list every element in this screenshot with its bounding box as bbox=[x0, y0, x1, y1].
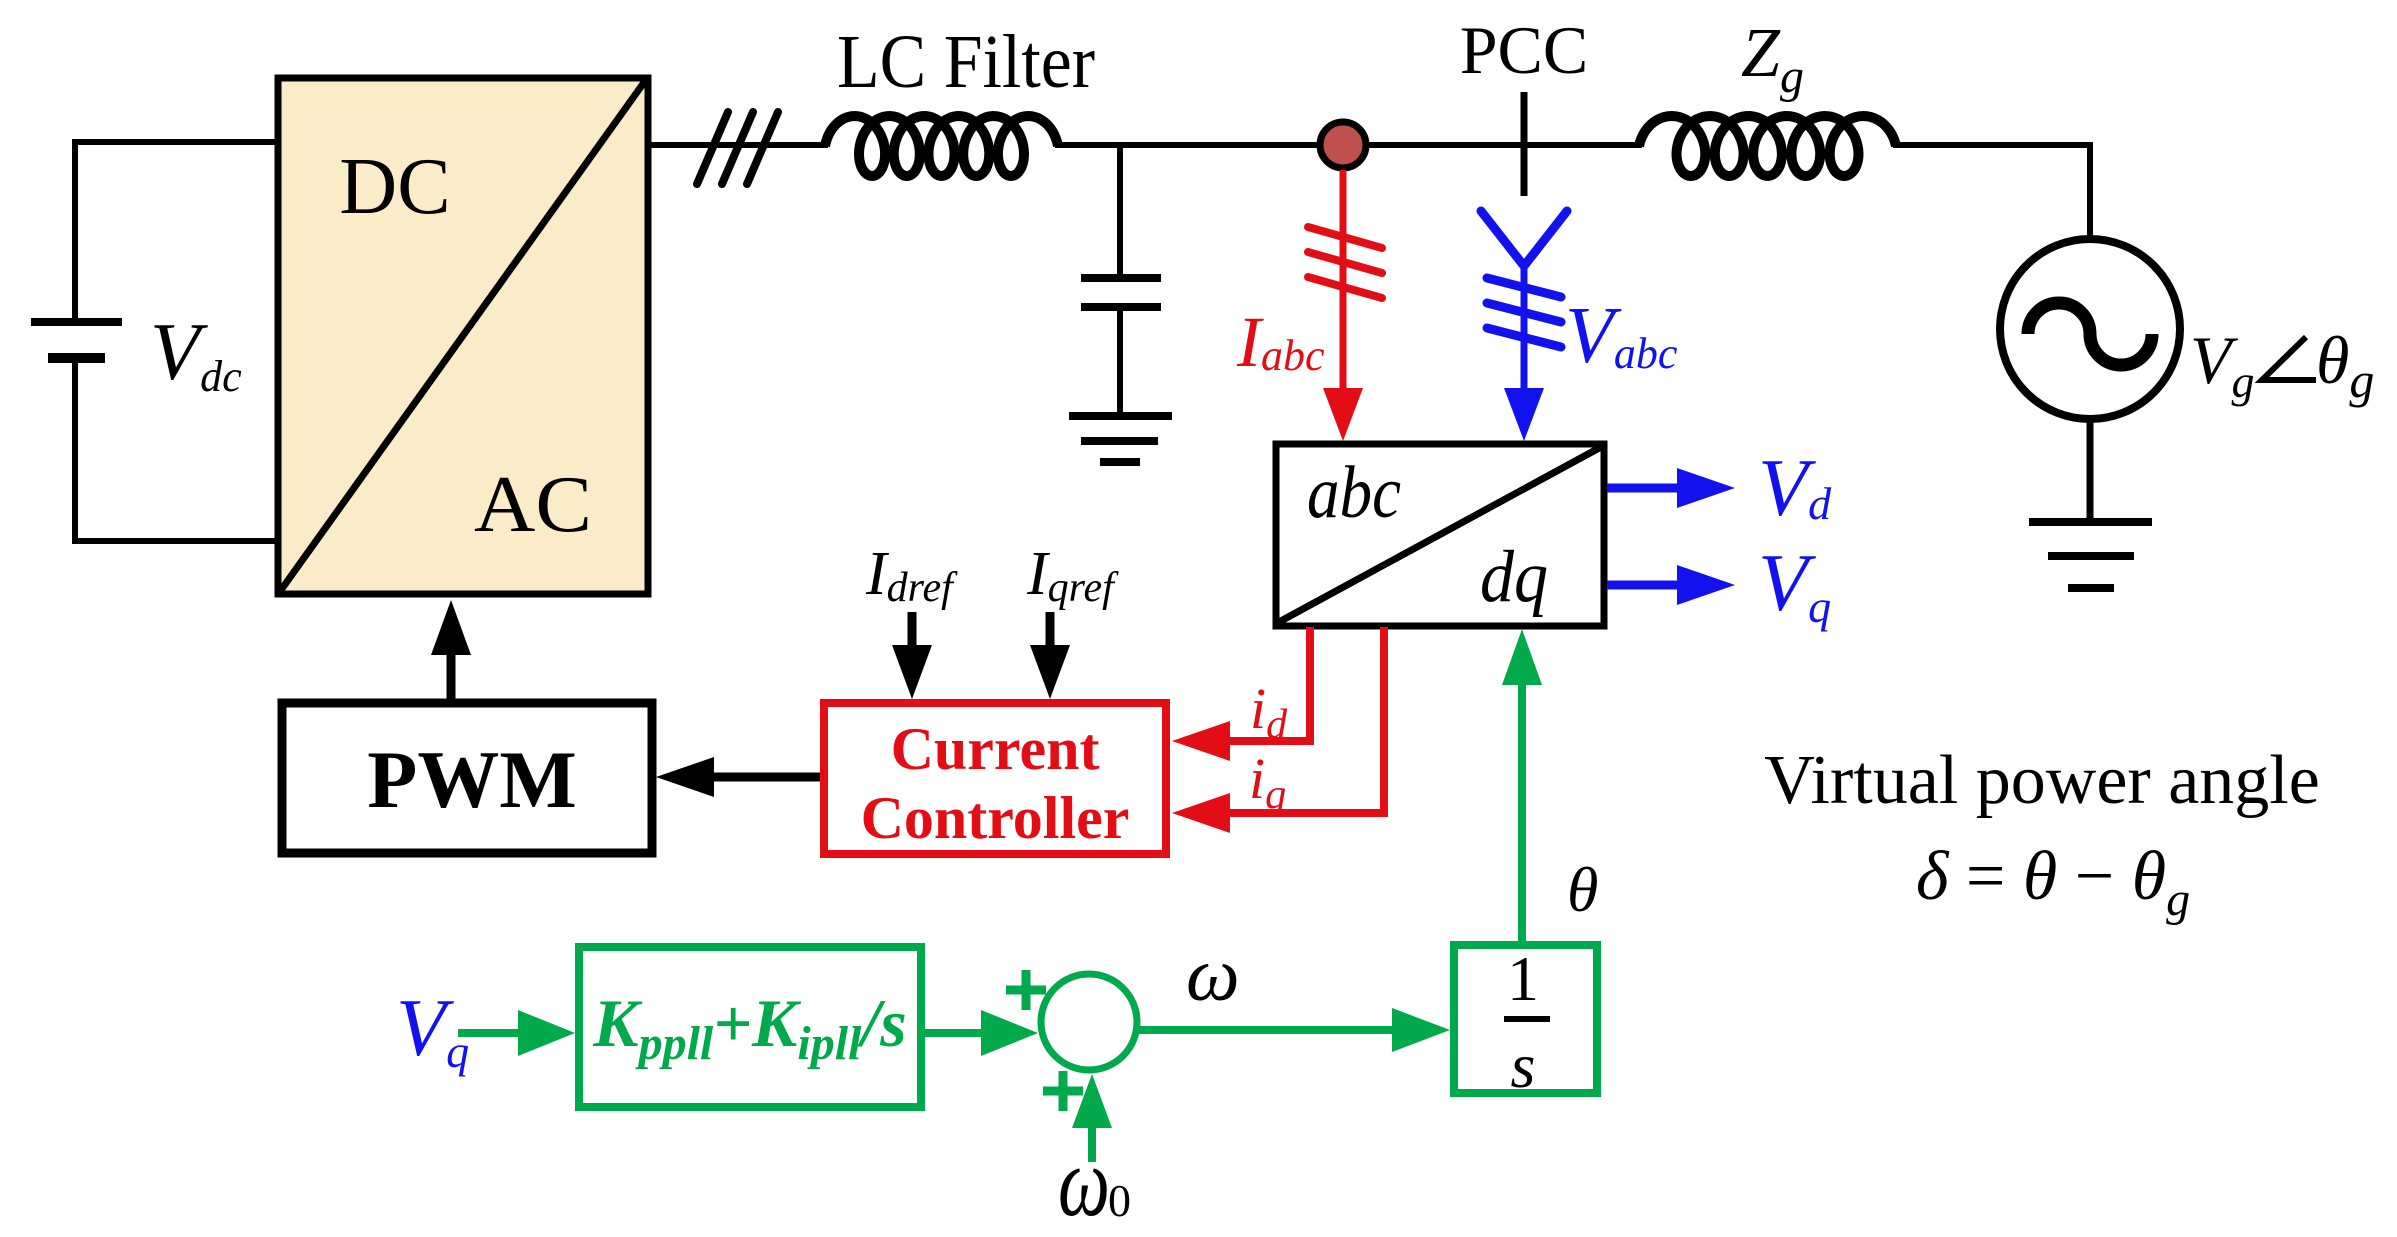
block K_ppll + K_ipll/s bbox=[579, 947, 921, 1107]
svg-text:1: 1 bbox=[1507, 943, 1539, 1014]
battery plate short bbox=[48, 353, 105, 363]
wire converter to LC filter bbox=[651, 142, 828, 148]
wire theta bbox=[1518, 683, 1526, 941]
plus bottom bbox=[1043, 1071, 1083, 1111]
arrow omega0 bbox=[1088, 1128, 1096, 1162]
wire bbox=[75, 358, 278, 541]
AC grid source bbox=[2000, 239, 2180, 419]
svg-text:ω: ω bbox=[1058, 1126, 1110, 1237]
arrow controller to PWM bbox=[713, 773, 820, 782]
wire Zg to grid source bbox=[1893, 145, 2090, 239]
output V_q bbox=[1607, 581, 1679, 590]
svg-text:δ = θ − θg: δ = θ − θg bbox=[1916, 838, 2190, 926]
voltage measurement V_abc bbox=[1481, 211, 1567, 266]
ground (grid) bbox=[2029, 522, 2152, 588]
battery V_dc bbox=[75, 142, 278, 541]
svg-text:PWM: PWM bbox=[367, 734, 576, 825]
svg-text:Virtual power angle: Virtual power angle bbox=[1764, 742, 2320, 819]
wire i_d bbox=[1228, 627, 1310, 741]
abc/dq transform block bbox=[1276, 444, 1604, 626]
arrow I_dref bbox=[908, 612, 917, 648]
capacitor branch wire bbox=[1117, 145, 1123, 278]
ground (capacitor) bbox=[1069, 416, 1172, 462]
inductor Zg bbox=[1639, 116, 1896, 176]
battery plate long bbox=[31, 318, 122, 326]
capacitor C bbox=[1081, 274, 1161, 282]
current measurement I_abc bbox=[1340, 170, 1347, 392]
plus top bbox=[1006, 970, 1046, 1010]
svg-text:ω: ω bbox=[1186, 933, 1240, 1017]
svg-text:LC Filter: LC Filter bbox=[837, 20, 1095, 104]
wire i_q bbox=[1228, 627, 1384, 813]
wire bbox=[75, 142, 278, 322]
block PWM bbox=[282, 703, 652, 853]
converter DC/AC bbox=[278, 78, 648, 594]
arrow I_qref bbox=[1046, 612, 1055, 648]
inductor L (LC filter) bbox=[825, 116, 1058, 176]
node PCC (dot) bbox=[1320, 122, 1366, 168]
svg-text:θ: θ bbox=[1567, 854, 1598, 925]
svg-text:Controller: Controller bbox=[861, 785, 1130, 851]
wire source to ground bbox=[2087, 419, 2094, 518]
svg-text:dq: dq bbox=[1480, 536, 1548, 618]
svg-text:AC: AC bbox=[474, 461, 592, 549]
wire omega to 1/s bbox=[1137, 1026, 1394, 1034]
svg-text:Current: Current bbox=[891, 716, 1100, 782]
svg-text:PCC: PCC bbox=[1460, 12, 1589, 88]
svg-text:s: s bbox=[1511, 1030, 1536, 1101]
svg-text:abc: abc bbox=[1307, 452, 1401, 534]
wire L to PCC to Zg bbox=[1055, 142, 1642, 148]
output V_d bbox=[1607, 484, 1679, 493]
summing junction bbox=[1041, 974, 1137, 1070]
block 1/s bbox=[1454, 945, 1597, 1093]
wire V_q to PI block bbox=[458, 1029, 520, 1037]
svg-text:DC: DC bbox=[339, 143, 450, 231]
svg-text:0: 0 bbox=[1108, 1175, 1131, 1226]
wire PI to summing bbox=[925, 1029, 983, 1037]
PCC tick bbox=[1521, 92, 1528, 196]
three-phase slashes bbox=[697, 112, 778, 184]
arrow PWM to converter bbox=[447, 652, 456, 699]
block Current Controller bbox=[824, 703, 1166, 854]
